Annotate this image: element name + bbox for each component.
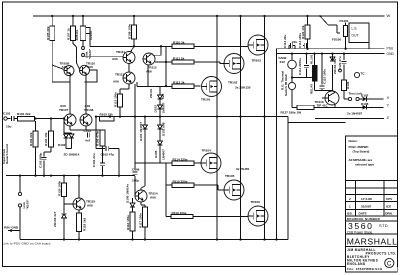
svg-text:C106: C106 bbox=[132, 168, 140, 172]
svg-text:R113 100e: R113 100e bbox=[114, 92, 118, 107]
svg-text:TR103: TR103 bbox=[252, 58, 262, 62]
svg-text:FS101: FS101 bbox=[340, 19, 349, 23]
svg-text:R115 220e: R115 220e bbox=[173, 180, 188, 184]
svg-text:Notes:: Notes: bbox=[349, 139, 358, 143]
svg-text:PSU GND: PSU GND bbox=[4, 226, 19, 230]
svg-text:Z: Z bbox=[387, 115, 390, 120]
svg-text:OUT: OUT bbox=[352, 34, 359, 38]
svg-text:C120 47u: C120 47u bbox=[338, 56, 342, 70]
svg-text:STD: STD bbox=[379, 223, 388, 228]
svg-text:2N5401: 2N5401 bbox=[75, 29, 79, 40]
svg-text:ISS.: ISS. bbox=[347, 211, 353, 215]
svg-text:24V: 24V bbox=[280, 60, 286, 64]
svg-text:R119 220e: R119 220e bbox=[172, 211, 187, 215]
svg-text:R102 22k: R102 22k bbox=[29, 132, 33, 146]
svg-text:.22u: .22u bbox=[291, 40, 297, 44]
svg-text:RELAY: RELAY bbox=[310, 83, 314, 94]
svg-text:DRN.: DRN. bbox=[385, 211, 393, 215]
svg-text:D102: D102 bbox=[58, 143, 66, 147]
svg-text:MARSHALL: MARSHALL bbox=[347, 237, 398, 247]
svg-text:100p: 100p bbox=[132, 179, 139, 183]
svg-text:C: C bbox=[387, 260, 392, 267]
svg-text:Y: Y bbox=[387, 103, 390, 108]
svg-text:FS100: FS100 bbox=[332, 38, 341, 42]
svg-text:2x 1N4007: 2x 1N4007 bbox=[347, 112, 362, 116]
svg-text:TR107: TR107 bbox=[59, 108, 69, 112]
svg-text:L.S.: L.S. bbox=[352, 27, 358, 31]
svg-text:3x 2SJ50: 3x 2SJ50 bbox=[236, 167, 250, 171]
svg-text:R114 220e: R114 220e bbox=[173, 158, 188, 162]
svg-text:D106 1N914s: D106 1N914s bbox=[126, 184, 130, 203]
svg-text:selected type: selected type bbox=[355, 163, 374, 167]
svg-text:TR104: TR104 bbox=[202, 149, 212, 153]
svg-text:PRODUCTS LTD.: PRODUCTS LTD. bbox=[366, 251, 397, 255]
svg-text:C102 680p: C102 680p bbox=[39, 153, 43, 168]
svg-text:C105 47p: C105 47p bbox=[101, 153, 115, 157]
svg-text:TR105: TR105 bbox=[225, 174, 235, 178]
svg-text:R104 10k: R104 10k bbox=[44, 132, 48, 146]
svg-text:TR111: TR111 bbox=[116, 50, 125, 54]
svg-text:(Top Board): (Top Board) bbox=[353, 149, 370, 153]
svg-text:Switch 85 DGC: Switch 85 DGC bbox=[284, 73, 288, 96]
svg-text:R108 100e: R108 100e bbox=[128, 24, 132, 39]
svg-text:31/5/87: 31/5/87 bbox=[361, 205, 372, 209]
svg-text:C115 100u: C115 100u bbox=[323, 69, 327, 84]
svg-text:C113 100u: C113 100u bbox=[298, 33, 302, 48]
svg-text:*K103*: *K103* bbox=[25, 199, 29, 210]
svg-text:ZD104 16v: ZD104 16v bbox=[333, 58, 337, 74]
svg-text:R116 100e: R116 100e bbox=[126, 215, 130, 230]
svg-text:X: X bbox=[387, 95, 390, 100]
svg-text:R107 1k: R107 1k bbox=[67, 28, 71, 40]
svg-text:PCB= 3MPWC: PCB= 3MPWC bbox=[349, 145, 370, 149]
svg-text:ChB Power Stage: ChB Power Stage bbox=[347, 230, 373, 234]
svg-text:A06: A06 bbox=[150, 196, 156, 200]
svg-text:ZD101: ZD101 bbox=[149, 88, 153, 98]
svg-text:Link to PSU GND on ChA board: Link to PSU GND on ChA board bbox=[3, 242, 51, 246]
svg-text:D107: D107 bbox=[361, 94, 369, 98]
svg-text:R101 2k2: R101 2k2 bbox=[17, 112, 31, 116]
svg-text:C104 22u: C104 22u bbox=[92, 153, 96, 167]
svg-text:3x 2SK135: 3x 2SK135 bbox=[235, 85, 251, 89]
svg-text:D105: D105 bbox=[154, 150, 158, 158]
svg-text:R105 39k: R105 39k bbox=[46, 26, 50, 40]
svg-text:DATE: DATE bbox=[359, 211, 367, 215]
svg-text:*LK20*: *LK20* bbox=[88, 48, 92, 59]
svg-text:RL101: RL101 bbox=[310, 54, 314, 64]
svg-text:PSU: PSU bbox=[387, 47, 394, 51]
svg-text:D102 6v8: D102 6v8 bbox=[161, 122, 165, 136]
svg-text:ZD103 4v7: ZD103 4v7 bbox=[53, 211, 57, 227]
svg-text:17-5-88: 17-5-88 bbox=[361, 197, 372, 201]
svg-text:R120 100k: R120 100k bbox=[57, 181, 61, 196]
svg-text:R110 2k: R110 2k bbox=[173, 41, 185, 45]
svg-text:A06: A06 bbox=[87, 204, 93, 208]
svg-text:D108: D108 bbox=[361, 102, 369, 106]
svg-text:A06: A06 bbox=[146, 69, 152, 73]
svg-text:CPV: CPV bbox=[386, 197, 393, 201]
svg-text:R118 1k5: R118 1k5 bbox=[83, 217, 87, 231]
svg-text:1N4007: 1N4007 bbox=[162, 149, 166, 160]
svg-text:ZD 1N5914: ZD 1N5914 bbox=[64, 153, 80, 157]
svg-text:Reverb board: Reverb board bbox=[5, 144, 9, 164]
svg-text:ICE: ICE bbox=[386, 205, 391, 209]
svg-text:R112 2k: R112 2k bbox=[173, 81, 185, 85]
svg-text:ENGLAND: ENGLAND bbox=[347, 262, 366, 266]
svg-text:TR102: TR102 bbox=[228, 81, 238, 85]
svg-text:D103: D103 bbox=[153, 105, 157, 113]
svg-text:TR113: TR113 bbox=[115, 73, 124, 77]
svg-text:1N4007: 1N4007 bbox=[161, 102, 165, 113]
svg-text:4n7: 4n7 bbox=[85, 139, 91, 143]
svg-text:R111 2k: R111 2k bbox=[173, 56, 185, 60]
svg-text:All MPSA06s are: All MPSA06s are bbox=[349, 158, 373, 162]
svg-text:2: 2 bbox=[349, 197, 351, 201]
svg-text:C114 2200u: C114 2200u bbox=[298, 58, 302, 75]
svg-text:A06: A06 bbox=[87, 65, 93, 69]
svg-text:D101 1N4007: D101 1N4007 bbox=[139, 122, 143, 141]
svg-text:C101: C101 bbox=[3, 112, 11, 116]
svg-text:W: W bbox=[387, 13, 391, 18]
svg-text:A06: A06 bbox=[112, 57, 118, 61]
svg-text:GND: GND bbox=[387, 52, 395, 56]
svg-text:3560: 3560 bbox=[348, 221, 374, 231]
svg-text:File: 3560PWRB.SCH: File: 3560PWRB.SCH bbox=[347, 267, 382, 271]
svg-text:10u: 10u bbox=[6, 125, 11, 129]
svg-text:TR108: TR108 bbox=[84, 108, 94, 112]
svg-text:R103 22k: R103 22k bbox=[100, 112, 114, 116]
svg-text:1: 1 bbox=[349, 205, 351, 209]
svg-text:R127 180e 1W: R127 180e 1W bbox=[281, 110, 302, 114]
svg-text:C112 22u: C112 22u bbox=[283, 34, 287, 48]
svg-text:TC: TC bbox=[361, 72, 366, 76]
svg-text:R117 100e: R117 100e bbox=[138, 213, 142, 228]
svg-text:R126: R126 bbox=[346, 81, 350, 89]
svg-text:TR109: TR109 bbox=[89, 31, 93, 41]
svg-text:TR101: TR101 bbox=[201, 98, 211, 102]
svg-text:TR106: TR106 bbox=[251, 200, 261, 204]
svg-text:C103: C103 bbox=[84, 129, 92, 133]
svg-text:A06: A06 bbox=[113, 80, 119, 84]
